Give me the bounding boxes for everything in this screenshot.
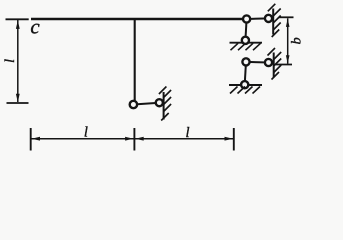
- svg-text:l: l: [185, 125, 189, 141]
- svg-text:c: c: [30, 15, 40, 39]
- svg-text:l: l: [3, 59, 18, 63]
- svg-text:l: l: [84, 125, 88, 141]
- svg-text:b: b: [289, 37, 304, 44]
